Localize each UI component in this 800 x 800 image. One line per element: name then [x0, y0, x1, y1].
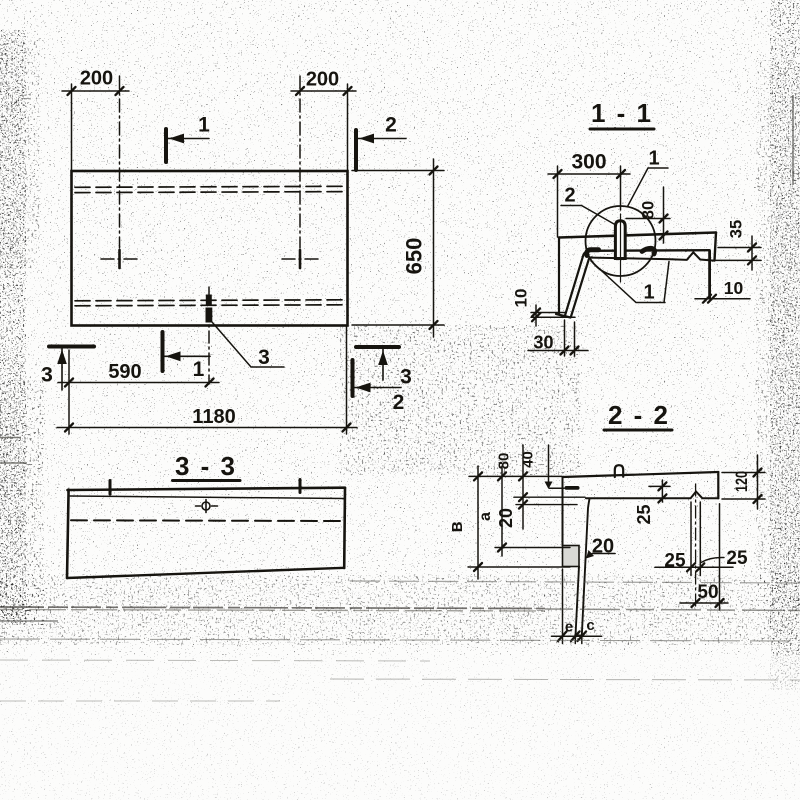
- svg-text:1: 1: [643, 282, 654, 304]
- svg-text:е: е: [565, 619, 573, 636]
- section 1-1 flange soffit upper line: [588, 249, 710, 252]
- dimension 10 right (lip): [695, 298, 750, 300]
- svg-text:35: 35: [728, 220, 746, 238]
- plan anchor detail 3 (filled, two lobes): [206, 295, 212, 305]
- right edge extension down: [719, 504, 721, 610]
- left margin mark y463: [0, 462, 27, 464]
- scan streak y701: [0, 700, 280, 702]
- svg-text:200: 200: [306, 69, 339, 91]
- scan streak y679: [330, 679, 800, 680]
- svg-text:650: 650: [402, 238, 427, 275]
- dimension 80 (pin height): [626, 187, 670, 243]
- section 2-2 title underline: [604, 429, 672, 432]
- scan streak y639: [0, 639, 800, 641]
- svg-text:120: 120: [732, 471, 751, 492]
- section 2-2 leg inner face: [582, 499, 590, 636]
- svg-text:10: 10: [512, 289, 531, 308]
- right margin vertical line: [792, 95, 794, 185]
- svg-text:40: 40: [520, 451, 537, 468]
- dim 50: [680, 602, 728, 604]
- svg-text:80: 80: [640, 201, 658, 219]
- plan centerline middle axis: [208, 287, 210, 384]
- svg-text:2: 2: [393, 391, 405, 414]
- label 20 leg leader with arrow: [592, 553, 615, 555]
- section 1-1 leg slant inner: [571, 257, 592, 316]
- section marker 1 bottom: [163, 332, 211, 371]
- loop tick left: [109, 481, 112, 495]
- scan streak y608 dark: [0, 607, 545, 609]
- section 3-3 title underline: [173, 479, 241, 482]
- svg-text:25: 25: [634, 504, 654, 524]
- section marker 2 top: [356, 130, 406, 170]
- section 2-2 leg bottom: [576, 635, 582, 637]
- section 1-1 right end face: [715, 233, 717, 261]
- section marker 3 bottom-left: [49, 347, 94, 391]
- label 1 leader bottom (two branches with shelf): [591, 261, 669, 303]
- dimension 200 right: line, ticks, extension: [291, 84, 356, 171]
- section 2-2 right end face: [717, 472, 719, 498]
- svg-text:а: а: [477, 512, 494, 521]
- dimension 35 right: [716, 236, 761, 270]
- svg-text:25: 25: [726, 548, 748, 569]
- svg-text:2: 2: [564, 185, 575, 207]
- extension line at pad top level: [495, 547, 570, 549]
- svg-text:20: 20: [592, 536, 614, 558]
- section 1-1 leg bottom: [556, 314, 571, 318]
- svg-text:200: 200: [80, 68, 113, 90]
- rebar hook right (thick bent bar): [642, 248, 655, 254]
- svg-text:20: 20: [496, 508, 516, 528]
- svg-text:с: с: [586, 617, 594, 634]
- center anchor symbol: [196, 500, 218, 513]
- section 3-3 top edge: [68, 488, 346, 490]
- scan noise band right edge: [770, 0, 800, 690]
- section 2-2 bearing pad rect (shaded): [563, 546, 580, 567]
- scan noise cluster middle band: [340, 325, 580, 475]
- label 2 leader: [561, 206, 614, 225]
- rebar hook left (thick bent bar): [587, 250, 599, 256]
- svg-text:3: 3: [41, 364, 53, 387]
- drip centerline dash-dot: [695, 484, 697, 609]
- label 1 leader top: [628, 168, 669, 207]
- section marker 2 bottom: [353, 360, 402, 396]
- svg-text:1180: 1180: [192, 406, 235, 428]
- section 2-2 top surface: [563, 472, 719, 477]
- svg-text:1: 1: [198, 114, 210, 137]
- svg-text:25: 25: [664, 551, 686, 572]
- dim line 25+25 horizontal: [655, 566, 733, 568]
- dimension 10 left (leg bottom): [531, 305, 575, 326]
- section 3-3 left edge: [67, 490, 69, 579]
- plan centerline left loop axis: [101, 76, 138, 259]
- section 1-1 top surface: [559, 233, 716, 238]
- dimension 590: [58, 350, 219, 434]
- plan hidden edge dashed pair bottom: [75, 300, 346, 306]
- section 2-2 lifting loop on top: [615, 465, 623, 477]
- svg-text:3: 3: [258, 346, 270, 369]
- detail circle: [586, 206, 656, 276]
- leader to label 3: [212, 322, 284, 367]
- section 1-1 flange lower line with drip notch: [592, 252, 714, 260]
- dimension 30 (leg foot): [528, 320, 588, 356]
- dim line b (full height left): [477, 466, 479, 579]
- dim line for 80/20 column: [522, 445, 524, 529]
- svg-text:2: 2: [385, 114, 397, 137]
- rebar bar end (filled): [565, 486, 580, 490]
- clean wash bottom: [0, 655, 800, 800]
- anchor loop pin (white filled over lines): [615, 221, 625, 259]
- plan view body outline: [72, 171, 348, 326]
- section 1-1 title underline: [590, 128, 654, 131]
- scan noise band left edge: [0, 30, 26, 625]
- svg-text:10: 10: [724, 278, 744, 298]
- svg-text:2 - 2: 2 - 2: [608, 400, 670, 430]
- svg-text:1 - 1: 1 - 1: [591, 98, 653, 128]
- svg-text:3: 3: [400, 366, 412, 389]
- dim line 40 with down arrow: [549, 445, 565, 488]
- section 1-1 leg slant outer: [565, 251, 588, 315]
- svg-text:50: 50: [697, 582, 718, 603]
- loop tick right: [299, 480, 302, 493]
- svg-text:1: 1: [648, 148, 659, 170]
- svg-text:590: 590: [108, 361, 141, 383]
- scan noise band bottom streak zone: [0, 575, 800, 645]
- ticks left column: [474, 472, 527, 571]
- dimension 650 right side: [352, 159, 444, 337]
- section 2-2 flange soffit with drip notch: [586, 492, 718, 499]
- svg-text:300: 300: [571, 151, 606, 174]
- svg-text:в: в: [446, 521, 466, 532]
- scan streak y580: [350, 581, 800, 583]
- dim 120 right: [722, 455, 765, 509]
- section 3-3 flange bottom line: [70, 496, 344, 499]
- section marker 3 bottom-right: [356, 347, 399, 380]
- scan streak y660: [0, 660, 430, 661]
- section 2-2 leg outer face: [576, 567, 580, 636]
- section marker 1 top: [166, 129, 209, 162]
- plan hidden edge dashed pair top: [75, 186, 346, 192]
- dimension 1180: [57, 326, 357, 435]
- section 1-1 left face vertical: [558, 238, 560, 315]
- top extension line: [469, 475, 562, 477]
- section 1-1 right lip: [708, 251, 711, 298]
- left margin mark y620: [0, 620, 58, 622]
- svg-text:1: 1: [193, 358, 205, 381]
- plan centerline right loop axis: [282, 76, 319, 259]
- dim line a: [501, 466, 503, 556]
- svg-text:30: 30: [533, 333, 553, 353]
- section 3-3 bottom sloped edge: [67, 568, 344, 578]
- section 3-3 hidden dashed line: [71, 519, 341, 522]
- dimension 300: [548, 166, 630, 237]
- extension pair near flange soffit left: [514, 497, 585, 504]
- section 3-3 right edge: [343, 488, 346, 568]
- drip groove projection lines: [691, 502, 700, 576]
- dims e and c at leg bottom: [552, 569, 602, 644]
- svg-text:80: 80: [496, 453, 513, 470]
- extension line at pad bottom level: [468, 566, 570, 568]
- svg-text:3 - 3: 3 - 3: [175, 451, 237, 481]
- dim 25 vertical at drip: [649, 480, 670, 502]
- left margin mark y437: [0, 437, 21, 439]
- dimension 200 left: line, ticks, extensions: [62, 84, 129, 171]
- section 2-2 left end face: [562, 477, 564, 546]
- anchor pin centerline: [620, 214, 622, 282]
- curved leader from right 25: [701, 557, 724, 562]
